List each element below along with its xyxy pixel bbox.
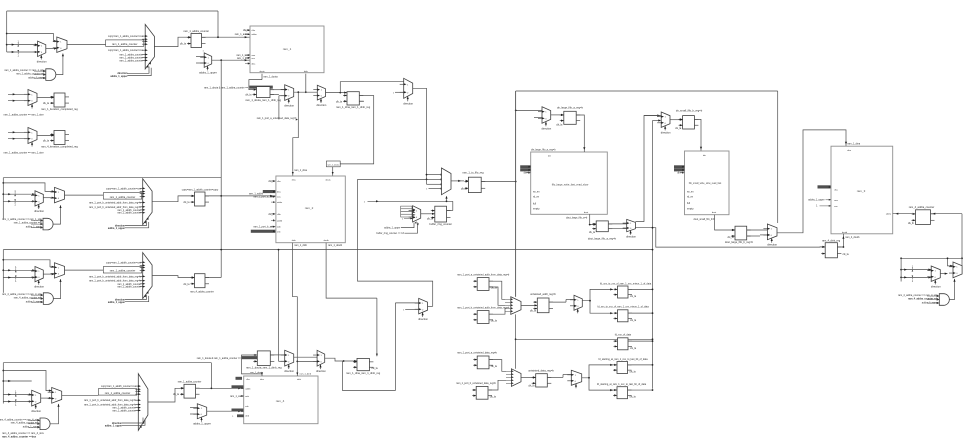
svg-text:doutb: doutb — [324, 239, 330, 242]
svg-text:fifo_small_write_slow_read_fas: fifo_small_write_slow_read_fast — [689, 182, 722, 185]
svg-text:clk_la: clk_la — [727, 236, 734, 239]
svg-text:ram_1_douta_ram_1_dinb_reg: ram_1_douta_ram_1_dinb_reg — [246, 366, 282, 370]
svg-text:ram_1_addra: ram_1_addra — [235, 33, 250, 36]
svg-text:ram_1_douta_ram_1_dinb_reg: ram_1_douta_ram_1_dinb_reg — [245, 98, 281, 102]
svg-text:clk_lb: clk_lb — [268, 213, 275, 216]
svg-text:ram_1_addra_counter: ram_1_addra_counter — [183, 29, 209, 33]
svg-text:empty: empty — [533, 208, 540, 211]
svg-text:wr_en: wr_en — [687, 190, 694, 193]
svg-text:clk_la: clk_la — [528, 385, 535, 388]
svg-text:copy=ram_1_addrb_counter=xxx: copy=ram_1_addrb_counter=xxx — [101, 385, 137, 388]
svg-text:ram_4_addra_counter: ram_4_addra_counter — [909, 205, 935, 209]
svg-text:copy=ram_1_addra_counter=xxx: copy=ram_1_addra_counter=xxx — [108, 49, 144, 52]
svg-text:direction: direction — [284, 103, 294, 107]
svg-text:clk_la: clk_la — [630, 319, 637, 322]
svg-text:ram_1_addra_counter: ram_1_addra_counter — [178, 380, 202, 383]
svg-text:ram_4_iteration_completed_reg: ram_4_iteration_completed_reg — [41, 145, 78, 149]
svg-text:ram_1_addra_counter: ram_1_addra_counter — [119, 59, 143, 62]
svg-text:direction: direction — [316, 369, 326, 373]
svg-text:addra_1_upper: addra_1_upper — [105, 425, 122, 428]
svg-text:clk_la: clk_la — [461, 188, 468, 191]
svg-text:clk_la: clk_la — [630, 347, 637, 350]
svg-text:ram_1_douta & ram_1_addra_coun: ram_1_douta & ram_1_addra_counter == — [204, 86, 249, 89]
svg-text:ram_4_addra_counter ==b: ram_4_addra_counter ==b — [908, 298, 938, 301]
svg-text:full: full — [533, 203, 537, 206]
svg-text:direction: direction — [626, 235, 636, 239]
svg-text:ram_1_port_a_addr: ram_1_port_a_addr — [254, 196, 275, 199]
svg-text:ram_4_addra_counter ==b: ram_4_addra_counter ==b — [11, 422, 40, 425]
svg-text:untwisted_data_reg=b: untwisted_data_reg=b — [528, 369, 554, 373]
svg-text:dout_large_fifo_b_reg=b: dout_large_fifo_b_reg=b — [725, 240, 754, 244]
svg-text:clk_la: clk_la — [490, 395, 497, 398]
svg-text:buffer_ring_counter <= 13: buffer_ring_counter <= 13 — [376, 232, 404, 235]
svg-text:addra_1_upper: addra_1_upper — [384, 227, 400, 230]
svg-text:clk_la: clk_la — [530, 310, 537, 313]
svg-text:ram_1_addra_counter: ram_1_addra_counter — [110, 195, 136, 199]
svg-text:douta: douta — [259, 70, 265, 73]
svg-text:fd_starting_at_ram_1_xxx_to_la: fd_starting_at_ram_1_xxx_to_last_bit_of_… — [597, 383, 647, 386]
svg-text:clk_la: clk_la — [630, 295, 637, 298]
svg-text:clk_la: clk_la — [183, 283, 190, 286]
svg-text:addra: addra — [252, 34, 258, 36]
svg-text:untwisted_addr_reg=b: untwisted_addr_reg=b — [530, 292, 556, 296]
svg-text:full: full — [687, 202, 691, 205]
svg-text:addra_1_upper: addra_1_upper — [199, 70, 217, 74]
svg-text:fifo_large_write_fast_read_slo: fifo_large_write_fast_read_slow — [552, 183, 589, 187]
svg-text:ram_1_addra_counter: ram_1_addra_counter — [112, 42, 138, 46]
svg-text:ram_1_to_fifo_reg: ram_1_to_fifo_reg — [462, 170, 484, 174]
svg-text:ram_1_port_a_untwisted_data_re: ram_1_port_a_untwisted_data_reg=b — [457, 352, 497, 355]
svg-text:clk_la: clk_la — [843, 253, 850, 256]
svg-text:ram_1_port_b_untwisted_data_re: ram_1_port_b_untwisted_data_reg=b — [456, 382, 496, 385]
svg-text:clk_la: clk_la — [556, 123, 563, 126]
svg-text:ram_1_dina: ram_1_dina — [294, 169, 307, 172]
svg-text:direction: direction — [316, 103, 326, 107]
svg-text:ram_1_addrb_counter: ram_1_addrb_counter — [117, 212, 141, 215]
svg-text:clk_la: clk_la — [180, 43, 187, 46]
svg-text:ram_1_dinb: ram_1_dinb — [294, 244, 307, 247]
svg-text:ram_1_ena: ram_1_ena — [237, 57, 250, 60]
svg-text:addra_1_upper: addra_1_upper — [110, 75, 127, 78]
svg-text:ram_1_douta: ram_1_douta — [264, 75, 279, 78]
svg-text:ram_1_port_b_untwisted_addr_fr: ram_1_port_b_untwisted_addr_from_data_re… — [457, 306, 510, 309]
svg-text:direction: direction — [34, 285, 44, 289]
svg-text:ram_1_web: ram_1_web — [230, 395, 243, 398]
svg-text:ram_2: ram_2 — [305, 206, 314, 210]
svg-text:ram_1: ram_1 — [283, 47, 292, 51]
svg-text:ram_1_port_b_untwisted_addr_fr: ram_1_port_b_untwisted_addr_from_data_re… — [89, 202, 142, 205]
svg-text:ram_1_doutb: ram_1_doutb — [328, 244, 343, 247]
svg-text:ram_1_addrb_counter: ram_1_addrb_counter — [117, 286, 141, 289]
svg-text:addra_1_upper: addra_1_upper — [108, 301, 125, 304]
svg-text:direction: direction — [37, 60, 47, 64]
svg-text:addra_1_upper: addra_1_upper — [26, 226, 42, 229]
svg-text:clk_la: clk_la — [675, 127, 682, 130]
svg-text:din_large_fifo_a_reg=b: din_large_fifo_a_reg=b — [531, 149, 556, 152]
svg-text:ram_1_addra_counter: ram_1_addra_counter — [105, 391, 131, 395]
svg-text:rd_en: rd_en — [533, 196, 540, 199]
svg-text:clk_la: clk_la — [43, 140, 50, 143]
svg-text:ram_1_port_b_untwisted_addr_fr: ram_1_port_b_untwisted_addr_from_data_re… — [89, 275, 142, 278]
svg-text:clk_la: clk_la — [268, 180, 275, 183]
svg-text:ram_1_port_b_untwisted_addr_fr: ram_1_port_b_untwisted_addr_from_data_re… — [84, 399, 137, 402]
svg-text:dout: dout — [584, 211, 589, 214]
svg-text:clk_la: clk_la — [630, 371, 637, 374]
svg-text:fd_xxx_to_xxx_of_ram_1_xxx_min: fd_xxx_to_xxx_of_ram_1_xxx_minus_1_of_da… — [600, 282, 652, 285]
svg-text:ram_1_douta: ram_1_douta — [250, 371, 264, 374]
svg-text:fd_starting_at_ram_1_xxx_to_la: fd_starting_at_ram_1_xxx_to_last_bit_of_… — [599, 358, 649, 361]
svg-text:direction: direction — [661, 130, 671, 134]
svg-text:dout_large_fifo_a=b: dout_large_fifo_a=b — [566, 217, 588, 220]
svg-text:ram_4_doutb: ram_4_doutb — [845, 236, 860, 239]
svg-text:direction: direction — [541, 126, 551, 130]
svg-text:ram_1_dina_ram_1_dinb_reg: ram_1_dina_ram_1_dinb_reg — [336, 105, 371, 109]
svg-text:clk_la: clk_la — [43, 102, 50, 105]
svg-text:dn_small_fifo_b_reg=b: dn_small_fifo_b_reg=b — [676, 108, 703, 112]
svg-text:addra_1_upper: addra_1_upper — [808, 199, 824, 202]
svg-text:addra: addra — [886, 213, 892, 215]
svg-text:copy=ram_1_addrb_counter=copy: copy=ram_1_addrb_counter=copy — [182, 188, 219, 191]
svg-text:direction: direction — [931, 284, 941, 288]
svg-text:ram_1_addrb_counter: ram_1_addrb_counter — [112, 409, 136, 412]
svg-text:clk_la: clk_la — [336, 100, 343, 103]
svg-text:ram_1_addra_counter == ram_1_s: ram_1_addra_counter == ram_1_size — [4, 113, 45, 116]
svg-text:direction: direction — [418, 317, 428, 321]
svg-text:direction: direction — [31, 409, 41, 413]
svg-text:ram_4: ram_4 — [276, 399, 285, 403]
svg-text:buffer_ring_counter: buffer_ring_counter — [429, 222, 452, 226]
svg-text:clk_la: clk_la — [491, 320, 498, 323]
svg-text:clk_la: clk_la — [589, 231, 596, 234]
svg-text:ram_1_douta & ram_1_addra_coun: ram_1_douta & ram_1_addra_counter == — [197, 357, 242, 360]
svg-text:ram_1_addra_counter: ram_1_addra_counter — [110, 269, 136, 273]
svg-text:ram_4_dinb_reg: ram_4_dinb_reg — [822, 240, 841, 243]
svg-text:direction: direction — [403, 101, 413, 105]
svg-text:clk_la: clk_la — [630, 396, 637, 399]
svg-text:addra: addra — [277, 202, 283, 204]
svg-text:ram_1_addra_counter ==b: ram_1_addra_counter ==b — [16, 72, 45, 75]
svg-text:addrb: addrb — [245, 388, 251, 390]
svg-text:clk_la: clk_la — [372, 367, 379, 370]
svg-text:dout_small_fifo_b=b: dout_small_fifo_b=b — [694, 218, 716, 221]
svg-text:rd_en: rd_en — [687, 196, 694, 199]
svg-text:clk_la: clk_la — [491, 365, 498, 368]
svg-text:ram_1_dina_ram_1_dinb_reg: ram_1_dina_ram_1_dinb_reg — [346, 371, 381, 375]
svg-text:copy=ram_1_addrb_counter=xxx: copy=ram_1_addrb_counter=xxx — [106, 187, 142, 190]
svg-text:copy=ram_1_addra_counter=xxx: copy=ram_1_addra_counter=xxx — [108, 35, 144, 38]
svg-text:clk_lb: clk_lb — [908, 222, 915, 225]
svg-text:ram_4_addra_counter ==b: ram_4_addra_counter ==b — [14, 296, 43, 299]
svg-text:ram_1_port_a_untwisted_data_re: ram_1_port_a_untwisted_data_reg=b — [257, 117, 297, 120]
svg-text:ram_1_dinb: ram_1_dinb — [300, 373, 312, 376]
svg-text:dn_large_fifo_a_reg=b: dn_large_fifo_a_reg=b — [557, 105, 584, 109]
svg-text:wr_en: wr_en — [533, 190, 540, 193]
svg-text:copy=ram_1_addrb_counter=xxx: copy=ram_1_addrb_counter=xxx — [106, 261, 142, 264]
svg-text:fd_xxx_of_data: fd_xxx_of_data — [615, 334, 632, 337]
svg-text:addra_1_upper: addra_1_upper — [108, 227, 125, 230]
svg-text:ram_1_dina: ram_1_dina — [848, 143, 861, 146]
svg-text:ram_1_iteration_completed_reg: ram_1_iteration_completed_reg — [41, 107, 78, 111]
svg-text:addrb: addrb — [277, 220, 283, 222]
svg-text:douta: douta — [325, 179, 331, 182]
svg-text:fd_xxx_to_xxx_of_ram_1_xxx_min: fd_xxx_to_xxx_of_ram_1_xxx_minus_1_of_da… — [598, 305, 650, 308]
svg-text:addra_1_upper: addra_1_upper — [193, 422, 211, 426]
svg-text:clk_la: clk_la — [245, 94, 252, 97]
svg-text:clk_la: clk_la — [173, 393, 180, 396]
svg-text:direction: direction — [767, 243, 777, 247]
svg-text:ram_4_addra_counter: ram_4_addra_counter — [190, 291, 214, 294]
svg-text:dout: dout — [712, 211, 717, 214]
svg-text:doutb: doutb — [842, 231, 848, 234]
svg-text:clk_la: clk_la — [427, 218, 434, 221]
svg-text:empty: empty — [687, 207, 694, 210]
svg-text:ram_1_addra_counter == ram_1_s: ram_1_addra_counter == ram_1_size — [4, 151, 45, 154]
svg-text:ram_3: ram_3 — [857, 189, 866, 193]
svg-text:ram_1_port_b_addr: ram_1_port_b_addr — [254, 226, 275, 229]
svg-text:ram_1_port_a_untwisted_addr_fr: ram_1_port_a_untwisted_addr_from_data_re… — [457, 273, 510, 276]
svg-text:direction: direction — [34, 209, 44, 213]
svg-text:clk_la: clk_la — [183, 201, 190, 204]
svg-text:dout_large_fifo_a_reg=b: dout_large_fifo_a_reg=b — [588, 237, 617, 241]
svg-text:direction: direction — [284, 369, 294, 373]
svg-text:ram_1_douta: ram_1_douta — [327, 163, 340, 166]
